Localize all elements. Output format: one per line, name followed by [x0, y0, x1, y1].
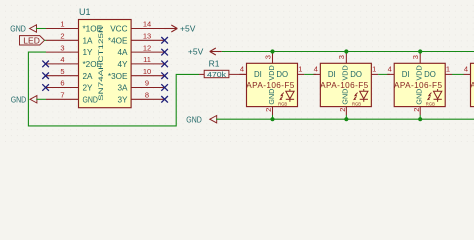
- svg-text:4: 4: [240, 65, 244, 74]
- svg-text:*3OE: *3OE: [108, 72, 128, 81]
- svg-text:2: 2: [264, 108, 273, 112]
- svg-text:VDD: VDD: [267, 65, 276, 80]
- svg-text:+5V: +5V: [180, 24, 196, 34]
- svg-text:GND: GND: [11, 95, 27, 104]
- svg-text:DI: DI: [328, 70, 336, 79]
- svg-text:13: 13: [143, 32, 151, 41]
- svg-text:9: 9: [145, 79, 149, 88]
- svg-text:6: 6: [60, 79, 64, 88]
- svg-text:4: 4: [388, 65, 392, 74]
- svg-text:3: 3: [337, 55, 346, 59]
- svg-text:R1: R1: [209, 58, 220, 68]
- svg-text:DI: DI: [254, 70, 262, 79]
- svg-text:APA-106-F5: APA-106-F5: [394, 81, 442, 90]
- svg-text:1: 1: [446, 65, 450, 74]
- svg-text:1A: 1A: [83, 36, 94, 45]
- svg-text:DO: DO: [350, 70, 362, 79]
- svg-text:1: 1: [372, 65, 376, 74]
- svg-text:1: 1: [60, 20, 64, 29]
- svg-text:LED: LED: [23, 35, 40, 45]
- svg-text:GND: GND: [83, 95, 98, 104]
- svg-text:4: 4: [464, 65, 468, 74]
- svg-text:4A: 4A: [117, 48, 128, 57]
- svg-text:DO: DO: [424, 70, 436, 79]
- svg-text:DI: DI: [402, 70, 410, 79]
- svg-text:5: 5: [60, 67, 64, 76]
- svg-text:+5V: +5V: [188, 47, 204, 57]
- svg-text:470k: 470k: [207, 72, 227, 79]
- svg-text:VDD: VDD: [415, 65, 424, 80]
- svg-text:2: 2: [338, 108, 347, 112]
- svg-text:2A: 2A: [83, 72, 94, 81]
- svg-text:RGB: RGB: [426, 102, 435, 107]
- svg-text:1: 1: [298, 65, 302, 74]
- svg-text:8: 8: [145, 91, 149, 100]
- svg-text:SN74AHCT125N: SN74AHCT125N: [98, 25, 105, 101]
- svg-text:GND: GND: [341, 89, 350, 105]
- svg-text:GND: GND: [186, 115, 202, 124]
- svg-text:2Y: 2Y: [83, 84, 94, 93]
- svg-text:3A: 3A: [117, 84, 128, 93]
- svg-text:GND: GND: [10, 25, 26, 34]
- svg-text:4Y: 4Y: [117, 60, 128, 69]
- svg-text:4: 4: [60, 55, 64, 64]
- svg-text:APA-106-F5: APA-106-F5: [246, 81, 294, 90]
- svg-text:2: 2: [412, 108, 421, 112]
- svg-text:14: 14: [143, 20, 151, 29]
- svg-text:2: 2: [60, 32, 64, 41]
- svg-text:1Y: 1Y: [83, 48, 94, 57]
- svg-text:3: 3: [60, 43, 64, 52]
- svg-text:RGB: RGB: [352, 102, 361, 107]
- svg-text:10: 10: [143, 67, 151, 76]
- svg-text:VCC: VCC: [110, 25, 127, 34]
- svg-text:APA-106-F5: APA-106-F5: [320, 81, 368, 90]
- svg-text:*4OE: *4OE: [108, 36, 128, 45]
- svg-text:3: 3: [411, 55, 420, 59]
- svg-text:GND: GND: [415, 89, 424, 105]
- svg-text:3Y: 3Y: [117, 95, 128, 104]
- svg-text:4: 4: [314, 65, 318, 74]
- svg-text:12: 12: [143, 43, 151, 52]
- svg-text:RGB: RGB: [278, 102, 287, 107]
- svg-text:VDD: VDD: [341, 65, 350, 80]
- svg-text:U1: U1: [79, 7, 91, 17]
- svg-text:3: 3: [263, 55, 272, 59]
- svg-text:11: 11: [143, 55, 151, 64]
- svg-text:GND: GND: [267, 89, 276, 105]
- svg-text:7: 7: [60, 91, 64, 100]
- svg-text:APA-106-F5: APA-106-F5: [470, 81, 474, 90]
- svg-text:DO: DO: [276, 70, 288, 79]
